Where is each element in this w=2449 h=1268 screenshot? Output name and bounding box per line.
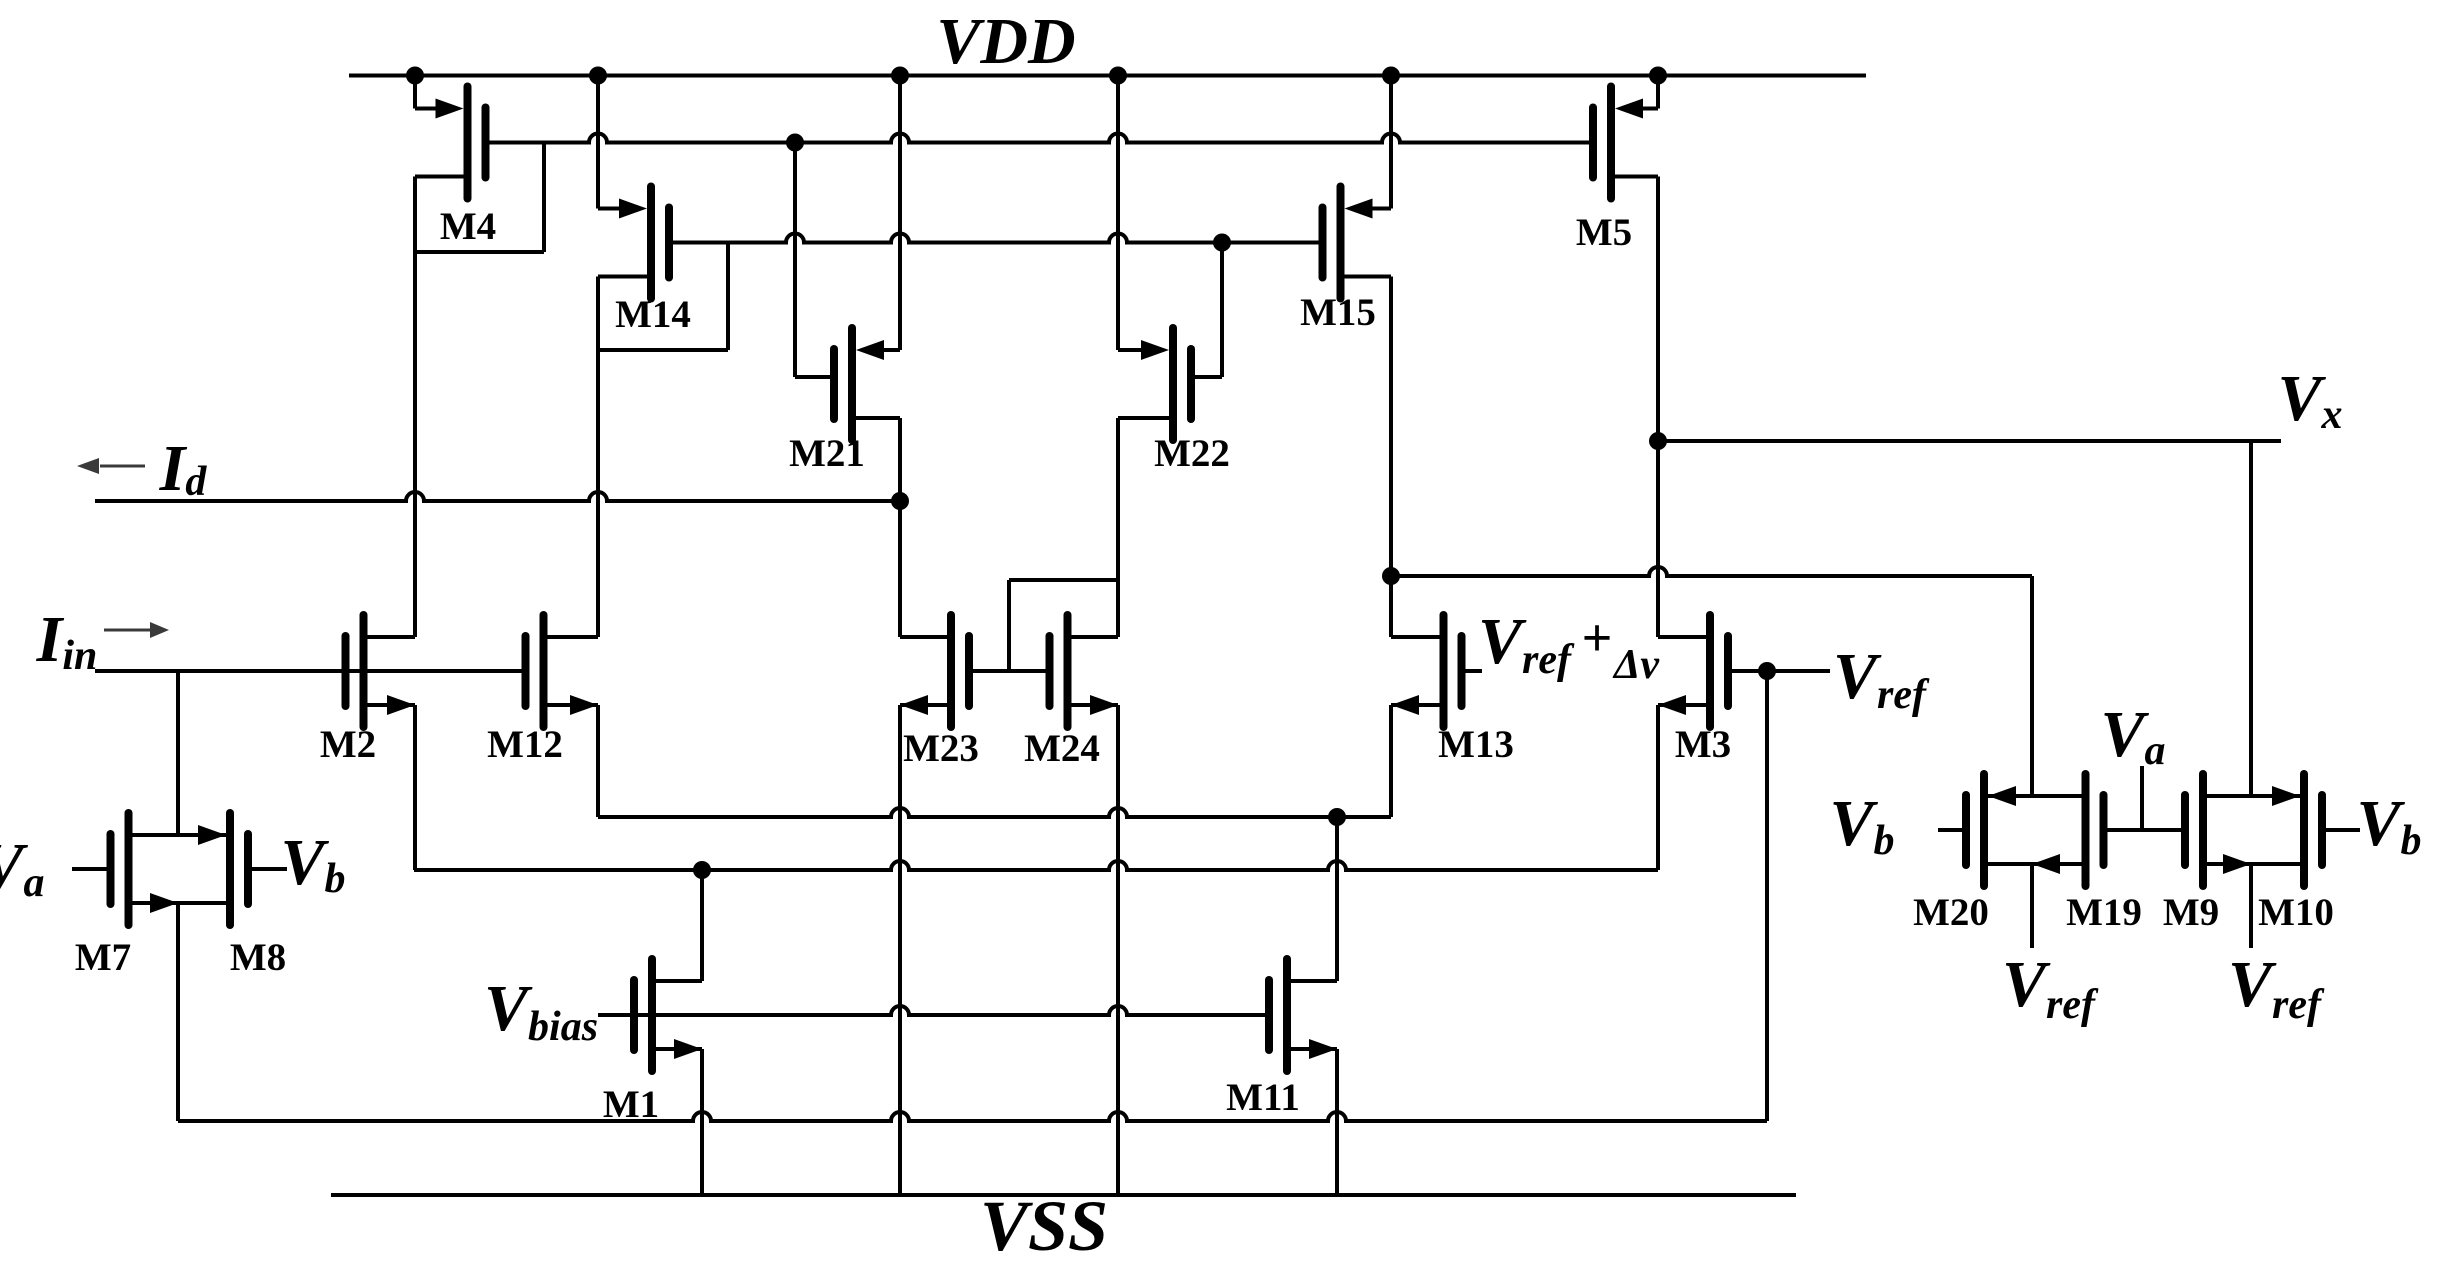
- svg-text:M19: M19: [2066, 891, 2142, 934]
- transistor M2: [346, 615, 416, 727]
- transistor M24: [1009, 615, 1118, 727]
- wire Iin drop to M7/M8: [176, 671, 180, 835]
- wire M21 source from VDD: [898, 76, 902, 351]
- wire M7/M8 bottom to Vref return: [176, 903, 180, 1121]
- transistor M21: [834, 328, 900, 440]
- wire M1 source down to VSS: [700, 1049, 704, 1195]
- transistor M4: [415, 87, 486, 199]
- wire M5 drain down to Vx and M3 drain: [1656, 177, 1660, 638]
- svg-text:M21: M21: [789, 432, 865, 475]
- transistor M23: [900, 615, 1009, 727]
- wire tail bus 2 (M2/M3 sources, M1 drain): [414, 861, 1658, 870]
- wire M3 gate lead to Vref label: [1767, 669, 1830, 673]
- junction dot VDD x=1658: [1649, 67, 1667, 85]
- transistor M19: [2086, 774, 2182, 886]
- arrow Iin direction: [104, 629, 152, 632]
- transistor M7: [72, 813, 129, 925]
- junction dot M15/M13 drain node: [1382, 567, 1400, 585]
- junction dot VDD x=415: [406, 67, 424, 85]
- junction dot VDD x=1118: [1109, 67, 1127, 85]
- svg-text:+: +: [1582, 608, 1613, 668]
- svg-text:M2: M2: [320, 723, 376, 766]
- junction dot Id node: [891, 492, 909, 510]
- junction dot VDD x=1391: [1382, 67, 1400, 85]
- wire M7/M8 top lead: [133, 833, 227, 837]
- junction dot Vx node: [1649, 432, 1667, 450]
- wire M7/M8 bottom lead: [133, 901, 227, 905]
- svg-text:M7: M7: [75, 936, 131, 979]
- wire M20/M19 bottom lead: [1988, 862, 2082, 866]
- svg-text:M24: M24: [1024, 727, 1100, 770]
- arrow M9 source on bottom lead: [2223, 854, 2251, 874]
- transistor M22: [1118, 328, 1191, 440]
- svg-text:M13: M13: [1438, 723, 1514, 766]
- wire M11 drain up to tail bus 1: [1335, 817, 1339, 981]
- wire M15 drain down to M13 drain: [1389, 277, 1393, 638]
- svg-text:M3: M3: [1675, 723, 1731, 766]
- transistor M15: [1323, 187, 1392, 299]
- wire M9/M10 top lead: [2207, 794, 2300, 798]
- arrow M5 source (PMOS): [1615, 99, 1643, 119]
- arrow M7 source on bottom lead: [150, 893, 178, 913]
- wire Iin gate line (M2,M12 gates): [95, 669, 526, 673]
- svg-text:M23: M23: [903, 727, 979, 770]
- power rail VSS: [331, 1193, 1796, 1197]
- arrow M15 source (PMOS): [1345, 199, 1373, 219]
- wire Vbias line: [598, 1006, 1266, 1015]
- svg-text:M9: M9: [2163, 891, 2219, 934]
- arrow M20 source on top lead: [1988, 786, 2016, 806]
- wire M20 pair source stub to Vref: [2030, 864, 2034, 948]
- wire gate bus A (M4-M21-M5 gates): [489, 134, 1589, 143]
- arrow Id direction: [100, 465, 145, 468]
- wire M22 drain down to M24 drain: [1116, 418, 1120, 637]
- wire M24 source down to VSS: [1116, 705, 1120, 1195]
- arrow M21 source (PMOS): [856, 340, 884, 360]
- wire M4 source from VDD: [413, 76, 417, 109]
- junction dot M1 drain on tail bus 2: [693, 861, 711, 879]
- wire M3 source down to tail bus 2: [1656, 705, 1660, 870]
- junction dot M11 drain on tail bus 1: [1328, 808, 1346, 826]
- svg-text:M4: M4: [440, 205, 496, 248]
- svg-text:VSS: VSS: [980, 1186, 1108, 1266]
- junction dot VDD x=598: [589, 67, 607, 85]
- wire M12 source down to tail bus 1: [596, 705, 600, 817]
- wire gate bus B (M14-M22-M15 gates): [673, 234, 1322, 243]
- svg-text:Δv: Δv: [1612, 642, 1660, 688]
- wire M19/M9 gate link: [2108, 828, 2182, 832]
- transistor M13: [1391, 615, 1482, 727]
- svg-text:M8: M8: [230, 936, 286, 979]
- svg-text:M12: M12: [487, 723, 563, 766]
- wire M15 source from VDD: [1389, 76, 1393, 209]
- svg-text:M5: M5: [1576, 211, 1632, 254]
- transistor M11: [1269, 959, 1337, 1071]
- svg-text:M15: M15: [1300, 291, 1376, 334]
- wire Vref vertical (M3 gate down): [1765, 671, 1769, 1121]
- wire M13 source down to tail bus 1: [1389, 705, 1393, 817]
- wire Vref return line: [178, 1112, 1767, 1121]
- power rail VDD: [349, 74, 1866, 78]
- wire M20/M19 top lead: [1988, 794, 2082, 798]
- arrow M8 source on top lead: [198, 825, 226, 845]
- junction dot VDD x=900: [891, 67, 909, 85]
- transistor M3: [1658, 615, 1767, 727]
- junction dot Vref node at M3 gate: [1758, 662, 1776, 680]
- wire M11 source down to VSS: [1335, 1049, 1339, 1195]
- wire M23 source down to VSS: [898, 705, 902, 1195]
- wire M22 gate to bus B: [1195, 375, 1222, 379]
- svg-text:VDD: VDD: [936, 5, 1075, 78]
- wire M14 drain down to M12 drain: [596, 277, 600, 638]
- svg-text:M14: M14: [615, 293, 691, 336]
- transistor M5: [1593, 87, 1658, 199]
- wire M4 gate-drain loop: [542, 143, 546, 253]
- wire Va drop to gate link: [2140, 766, 2144, 830]
- wire M4 drain down to M2 drain: [413, 177, 417, 638]
- wire M21 gate from bus A: [793, 143, 797, 378]
- junction dot bus B / M22 gate: [1213, 234, 1231, 252]
- svg-text:M1: M1: [603, 1083, 659, 1126]
- transistor M8: [230, 813, 287, 925]
- wire M14 gate-drain loop: [726, 243, 730, 351]
- wire M2 source down to tail bus 2: [413, 705, 417, 870]
- svg-text:M22: M22: [1154, 432, 1230, 475]
- wire M21 drain to Id node and M23: [898, 418, 902, 637]
- svg-text:M11: M11: [1226, 1076, 1300, 1119]
- transistor M10: [2304, 774, 2360, 886]
- arrow M10 source on top lead: [2272, 786, 2300, 806]
- wire node576 drop to M20/M19 pair: [2030, 576, 2034, 796]
- wire Vx line: [1658, 439, 2281, 443]
- transistor M20: [1938, 774, 1984, 886]
- svg-text:M10: M10: [2258, 891, 2334, 934]
- wire Id line: [95, 492, 900, 501]
- wire M9 pair source stub to Vref: [2249, 864, 2253, 948]
- wire M1 drain up to tail bus 2: [700, 870, 704, 981]
- transistor M14: [598, 187, 669, 299]
- wire M14 source from VDD: [596, 76, 600, 209]
- wire M5 source from VDD: [1656, 76, 1660, 109]
- transistor M1: [634, 959, 702, 1071]
- transistor M12: [526, 615, 599, 727]
- svg-text:M20: M20: [1913, 891, 1989, 934]
- arrow M14 source (PMOS): [619, 199, 647, 219]
- wire M23 gate to M24 drain link: [1009, 578, 1118, 582]
- wire M22 source from VDD: [1116, 76, 1120, 351]
- wire Vx drop to M9/M10 pair: [2249, 441, 2253, 796]
- junction dot bus A / M21 gate: [786, 134, 804, 152]
- arrow M19 source on bottom lead: [2032, 854, 2060, 874]
- wire tail bus 1 (M12/M13 sources, M11 drain): [598, 808, 1391, 817]
- transistor M9: [2185, 774, 2203, 886]
- wire node576 line (M15/M13 drains to M20 pair): [1391, 567, 2032, 576]
- arrow M22 source (PMOS): [1141, 340, 1169, 360]
- wire M9/M10 bottom lead: [2207, 862, 2300, 866]
- arrow M4 source (PMOS): [436, 99, 464, 119]
